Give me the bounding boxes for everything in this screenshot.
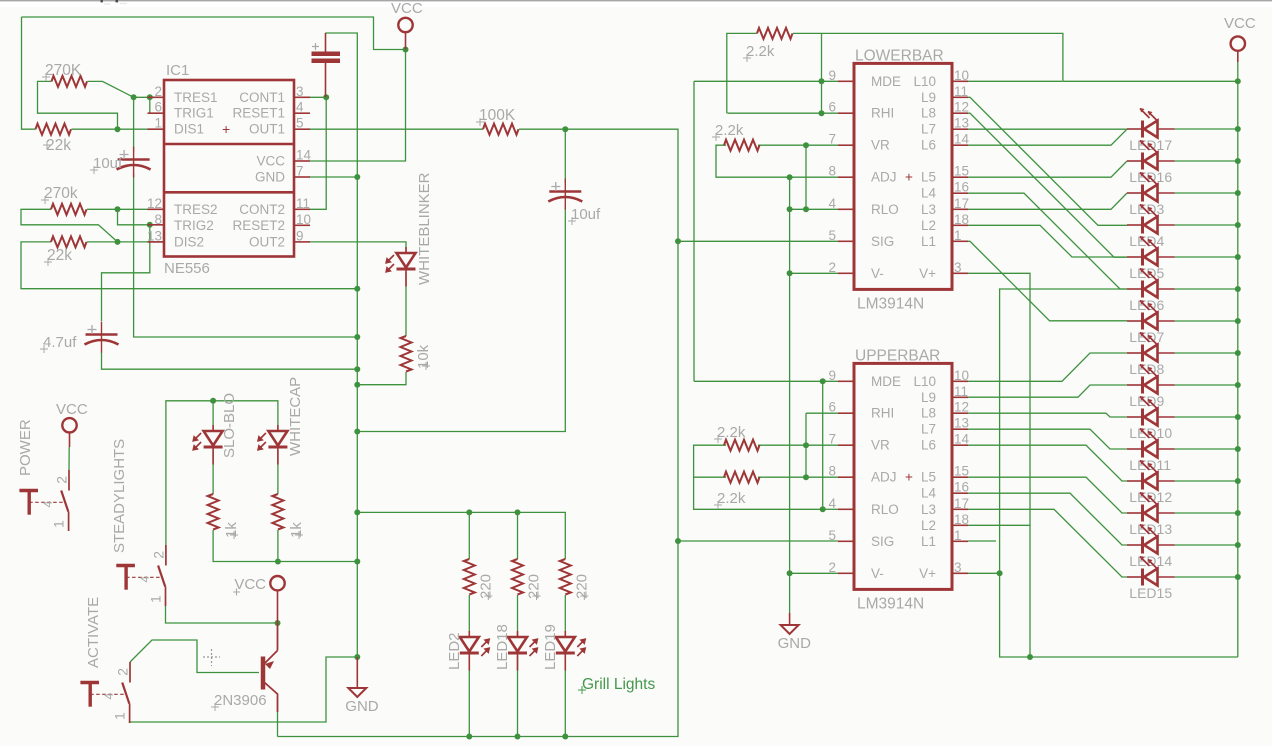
svg-text:L3: L3	[921, 502, 936, 517]
svg-text:4: 4	[138, 576, 152, 583]
junction TRES1 a	[131, 94, 137, 100]
wire 270K right diagonal to TRES1	[88, 81, 150, 97]
wire upper L6 pin14 to LED12	[968, 445, 1127, 481]
wire L10 pin10 row	[968, 80, 1062, 82]
wire SIG upperbar row	[678, 540, 838, 542]
wire 10uf C2 bottom to bus	[134, 174, 358, 337]
wire LED anode row y513	[1175, 512, 1238, 514]
wire LED anode row y545	[1175, 544, 1238, 546]
junction ADJ lowerbar	[787, 174, 793, 180]
wire L7 pin13 to LED17	[968, 128, 1127, 130]
resistor R11 1k	[208, 494, 219, 530]
junction 220 rail a	[466, 509, 472, 515]
junction bottom rail LED18	[515, 734, 521, 740]
wire L9 pin11 fan diagonal	[968, 97, 1127, 225]
supply VCC transistor stub	[277, 591, 279, 623]
wire bottom right rail	[999, 656, 1238, 658]
IC1 pin numbers	[147, 84, 312, 244]
wire 2.2k R5 left lead	[727, 33, 757, 113]
svg-text:ACTIVATE: ACTIVATE	[85, 597, 102, 668]
wire anode rail slo-blo whitecap	[166, 401, 278, 545]
wire L6 pin14 to LED17 kink	[968, 129, 1127, 145]
LED LED4	[1141, 217, 1144, 234]
resistor R1 270K	[52, 76, 88, 87]
wire top link to right rail	[822, 33, 1238, 81]
R15 label 220	[580, 592, 588, 600]
svg-text:LOWERBAR: LOWERBAR	[855, 47, 944, 64]
IC1 pin names	[174, 90, 285, 250]
svg-text:LED6: LED6	[1129, 297, 1164, 313]
svg-text:12: 12	[147, 196, 162, 211]
junction CONT1 cap C1	[323, 94, 329, 100]
wire power vcc to switch	[68, 447, 70, 470]
wire 22k R2 to DIS1	[72, 128, 165, 130]
svg-text:7: 7	[296, 164, 304, 179]
wire collector to rail	[277, 712, 279, 737]
junction bus GND node	[354, 654, 360, 660]
svg-text:UPPERBAR: UPPERBAR	[855, 347, 940, 364]
svg-text:4: 4	[102, 693, 116, 700]
wire LED anode row y161	[1175, 160, 1238, 162]
capacitor C3 10uf plates	[564, 179, 566, 210]
wire left border down to 22k R2 row	[22, 17, 36, 129]
svg-text:L3: L3	[921, 202, 936, 217]
svg-text:LED3: LED3	[1129, 201, 1164, 217]
svg-text:270k: 270k	[44, 185, 78, 202]
junction bus GND pin7	[354, 174, 360, 180]
junction rail y225	[1235, 222, 1241, 228]
wire LED anode row y417	[1175, 416, 1238, 418]
svg-text:8: 8	[828, 464, 836, 479]
switch S1 POWER	[68, 470, 70, 491]
wire LED anode row y481	[1175, 480, 1238, 482]
LED D1 WHITEBLINKER	[405, 247, 407, 287]
svg-text:DIS2: DIS2	[174, 234, 204, 249]
switch S3 ACTIVATE	[129, 662, 131, 683]
wire upper L8 pin12 to LED10	[968, 413, 1127, 417]
wire TRES1 to TRIG1 link	[150, 97, 164, 113]
junction V- lowerbar	[787, 270, 793, 276]
wire upper L1 pin1 stub	[968, 540, 996, 542]
svg-text:V+: V+	[919, 266, 936, 281]
junction SIG lowerbar	[675, 238, 681, 244]
junction rail y513	[1235, 510, 1241, 516]
junction 220 rail b	[515, 509, 521, 515]
junction RLO upperbar	[820, 506, 826, 512]
R6 label 2.2k	[712, 133, 720, 141]
svg-text:LED8: LED8	[1129, 361, 1164, 377]
wire LED anode row y449	[1175, 448, 1238, 450]
svg-text:+: +	[905, 470, 913, 485]
R12 label 1k	[295, 531, 303, 539]
svg-text:9: 9	[828, 68, 836, 83]
junction rail y577	[1235, 574, 1241, 580]
svg-text:5: 5	[296, 116, 304, 131]
svg-text:VCC: VCC	[234, 576, 266, 593]
wire 220 rail	[357, 512, 565, 559]
junction V+ rail	[1027, 654, 1033, 660]
capacitor C1 top plates	[312, 54, 341, 61]
LED LED12	[1141, 473, 1144, 490]
svg-text:2: 2	[53, 476, 69, 484]
LED LED8	[1141, 345, 1144, 362]
svg-text:GND: GND	[778, 635, 812, 652]
editor crosshair	[203, 649, 220, 666]
junction rail y193	[1235, 190, 1241, 196]
capacitor C4 4.7uf	[101, 322, 103, 353]
wire V- upperbar row	[790, 572, 838, 574]
svg-text:V-: V-	[871, 266, 884, 281]
LED D3 WHITECAP	[277, 425, 279, 465]
svg-text:Grill Lights: Grill Lights	[582, 676, 655, 693]
wire L2 pin18 to LED5	[968, 225, 1127, 257]
svg-text:2.2k: 2.2k	[715, 122, 744, 139]
LED LED10	[1141, 409, 1144, 426]
svg-text:11: 11	[296, 196, 310, 211]
svg-text:MDE: MDE	[871, 374, 901, 389]
junction bus 1k rail	[354, 559, 360, 565]
wire MDE vertical link	[693, 81, 695, 381]
LED LED7	[1141, 313, 1144, 330]
junction bus 10uf chain	[354, 334, 360, 340]
svg-text:LED5: LED5	[1129, 265, 1164, 281]
svg-text:2.2k: 2.2k	[717, 424, 746, 441]
resistor R12 1k	[272, 494, 283, 530]
junction rail y321	[1235, 318, 1241, 324]
wire LED2 top lead	[468, 595, 470, 637]
wire RLO lowerbar row	[790, 208, 838, 210]
resistor R5 2.2k	[757, 28, 793, 39]
resistor R10 10k	[401, 336, 412, 372]
switch S2 STEADYLIGHTS	[165, 545, 167, 566]
svg-text:L5: L5	[921, 170, 936, 185]
wire upper L3 pin17 to LED15	[968, 509, 1127, 577]
junction bus 4.7uf	[354, 366, 360, 372]
wire LED anode row y577	[1175, 576, 1238, 578]
Grill Lights text	[578, 686, 586, 694]
wire main vertical bus	[325, 33, 357, 657]
svg-text:4: 4	[828, 196, 836, 211]
svg-text:2: 2	[154, 84, 162, 99]
svg-text:4: 4	[828, 496, 836, 511]
svg-text:1: 1	[147, 595, 163, 603]
ground GND1	[348, 688, 366, 697]
LED D2 SLO-BLO	[212, 425, 214, 465]
svg-text:TRES1: TRES1	[174, 90, 218, 105]
svg-text:1: 1	[51, 520, 67, 528]
junction rail y545	[1235, 542, 1241, 548]
svg-text:10: 10	[954, 368, 969, 383]
wire LED19 bottom	[564, 656, 566, 737]
supply VCC top-middle	[398, 18, 412, 32]
svg-text:1: 1	[954, 528, 962, 543]
junction VCC top-middle	[403, 47, 409, 53]
junction TRIG2	[147, 222, 153, 228]
wire 10uf C3 top lead	[564, 129, 566, 183]
svg-text:7: 7	[828, 132, 836, 147]
R13 label 220	[484, 592, 492, 600]
wire V- GND vertical	[789, 177, 791, 613]
junction VR upperbar	[803, 442, 809, 448]
R8 label 2.2k	[714, 501, 722, 509]
svg-text:2.2k: 2.2k	[717, 490, 746, 507]
wire L4 pin16 fan diagonal to LED6	[968, 193, 1127, 289]
junction rail y353	[1235, 350, 1241, 356]
svg-text:1k: 1k	[223, 522, 240, 538]
wire TRES2 to TRIG2 link	[118, 209, 165, 225]
svg-text:L7: L7	[921, 422, 936, 437]
junction rail y257	[1235, 254, 1241, 260]
svg-text:16: 16	[954, 480, 969, 495]
resistor R9 100K	[483, 124, 519, 135]
wire 270K left loop	[38, 81, 118, 129]
IC U3 LM3914N UPPERBAR	[828, 363, 969, 589]
R5 label 2.2k	[743, 54, 751, 62]
wire 2.2k R6 left loop	[716, 145, 790, 177]
svg-text:L6: L6	[921, 138, 936, 153]
svg-text:15: 15	[954, 464, 969, 479]
junction RHI lowerbar	[819, 110, 825, 116]
wire 10uf C3 bottom to bus	[357, 207, 565, 432]
svg-text:2: 2	[828, 260, 836, 275]
wire V- lowerbar row	[790, 272, 838, 274]
wire LED anode row y289	[1175, 288, 1238, 290]
svg-text:VCC: VCC	[391, 0, 423, 17]
svg-text:RHI: RHI	[871, 406, 894, 421]
svg-text:9: 9	[296, 228, 304, 243]
svg-text:7: 7	[828, 432, 836, 447]
wire activate pin1 bottom	[130, 657, 357, 723]
wire LED anode row y225	[1175, 224, 1238, 226]
resistor R15 220	[560, 559, 571, 595]
svg-text:10: 10	[296, 212, 311, 227]
svg-text:L7: L7	[921, 122, 936, 137]
svg-text:OUT1: OUT1	[249, 122, 285, 137]
wire ADJ lowerbar row	[790, 176, 838, 178]
svg-text:IC1: IC1	[166, 62, 189, 79]
chrome tick marks	[101, 0, 103, 2]
svg-text:VCC: VCC	[56, 401, 88, 418]
svg-text:+: +	[222, 121, 230, 137]
ground GND2	[781, 625, 799, 634]
wire 220 branch 2	[517, 512, 519, 559]
LED LED16	[1141, 153, 1144, 170]
svg-text:ADJ: ADJ	[871, 470, 897, 485]
R11 label 1k	[230, 531, 238, 539]
junction DIS2	[115, 239, 121, 245]
svg-text:L9: L9	[921, 90, 936, 105]
resistor R8 2.2k	[724, 472, 760, 483]
wire L8 pin12 fan diagonal	[968, 113, 1127, 257]
LED LED5	[1141, 249, 1144, 266]
svg-text:LED19: LED19	[542, 624, 559, 670]
LED LED13	[1141, 505, 1144, 522]
svg-text:9: 9	[828, 368, 836, 383]
svg-text:4: 4	[41, 501, 55, 508]
wire ADJ upperbar row	[758, 476, 838, 478]
svg-text:10uf: 10uf	[571, 206, 601, 223]
svg-text:STEADYLIGHTS: STEADYLIGHTS	[111, 439, 128, 553]
wire RHI-ADJ link upperbar	[805, 413, 807, 477]
R14 label 220	[533, 592, 541, 600]
svg-text:LED2: LED2	[446, 632, 463, 670]
wire L3 pin17 to LED3	[968, 193, 1127, 209]
wire MDE lowerbar row	[694, 80, 838, 82]
wire VR upperbar row	[758, 444, 838, 446]
svg-text:1: 1	[954, 228, 962, 243]
svg-text:ADJ: ADJ	[871, 170, 897, 185]
wire GND1 stub	[356, 657, 358, 687]
svg-text:RESET1: RESET1	[232, 106, 285, 121]
LED LED6	[1141, 281, 1144, 298]
svg-text:16: 16	[954, 180, 969, 195]
junction TRES1 b	[147, 94, 153, 100]
svg-text:GND: GND	[255, 170, 285, 185]
wire LED2 bottom	[468, 656, 470, 737]
junction rail y385	[1235, 382, 1241, 388]
svg-text:CONT1: CONT1	[239, 90, 285, 105]
svg-text:L5: L5	[921, 470, 936, 485]
wire upper L10 pin10 to LED8	[968, 353, 1127, 381]
svg-text:2N3906: 2N3906	[214, 692, 267, 709]
resistor R6 2.2k	[724, 140, 760, 151]
junction VCC emitter node	[275, 620, 281, 626]
svg-text:13: 13	[147, 228, 162, 243]
wire MDE-RHI link	[821, 33, 823, 113]
wire L1 pin1 fan diagonal to LED7	[968, 241, 1127, 320]
svg-text:POWER: POWER	[17, 419, 34, 476]
capacitor C3 10uf leads	[564, 182, 566, 184]
svg-text:MDE: MDE	[871, 74, 901, 89]
svg-text:LED7: LED7	[1129, 329, 1164, 345]
svg-text:3: 3	[954, 260, 962, 275]
svg-text:V-: V-	[871, 566, 884, 581]
wire LED19 top lead	[564, 595, 566, 637]
svg-text:15: 15	[954, 164, 969, 179]
R3 label 270k	[41, 196, 49, 204]
svg-text:L8: L8	[921, 106, 936, 121]
svg-text:17: 17	[954, 496, 969, 511]
svg-text:V+: V+	[919, 566, 936, 581]
wire VR-RLO link	[805, 145, 807, 209]
wire MDE-RLO link upperbar	[822, 381, 824, 509]
wire LED anode row y385	[1175, 384, 1238, 386]
wire VR lowerbar row	[758, 144, 838, 146]
wire 2.2k R7 left loop	[694, 445, 823, 509]
junction VR lowerbar	[803, 142, 809, 148]
Q1 label 2N3906	[211, 703, 219, 711]
svg-text:L2: L2	[921, 518, 936, 533]
resistor R3 270k	[51, 204, 87, 215]
junction 1k rail	[275, 559, 281, 565]
junction ADJ upperbar	[803, 474, 809, 480]
R9 label 100K	[476, 118, 484, 126]
svg-text:18: 18	[954, 212, 969, 227]
LED LED15	[1141, 569, 1144, 586]
svg-text:SIG: SIG	[871, 534, 894, 549]
IC U2 LM3914N LOWERBAR	[828, 63, 969, 289]
LED LED18 grill	[517, 631, 519, 671]
wire CONT1 to cap C1	[309, 96, 326, 98]
R10 label 10k	[422, 362, 430, 370]
wire LED1 to 10k	[405, 272, 407, 336]
resistor R4 22k	[51, 236, 87, 247]
svg-text:VR: VR	[871, 438, 890, 453]
svg-text:270K: 270K	[45, 62, 82, 79]
LED LED3	[1141, 185, 1144, 202]
transistor Q1 2N3906	[261, 657, 266, 690]
junction rail y481	[1235, 478, 1241, 484]
wire CONT1 to CONT2	[309, 97, 326, 209]
wire L5 pin15 to LED16	[968, 161, 1127, 177]
wire steadylights pin1 down	[166, 606, 278, 623]
svg-text:18: 18	[954, 512, 969, 527]
wire 22k R4 to DIS2	[87, 241, 164, 243]
svg-text:LED9: LED9	[1129, 393, 1164, 409]
supply VCC power-switch	[62, 418, 76, 432]
wire 22k R4 left loop to bus	[21, 242, 357, 289]
svg-text:RHI: RHI	[871, 106, 894, 121]
wire upper L2 pin18 stub	[968, 524, 1030, 526]
svg-text:2: 2	[114, 668, 130, 676]
svg-text:L9: L9	[921, 390, 936, 405]
junction MDE right	[819, 78, 825, 84]
svg-text:L10: L10	[913, 374, 936, 389]
LED LED17	[1141, 121, 1144, 138]
junction rail y129	[1235, 126, 1241, 132]
svg-text:2: 2	[828, 560, 836, 575]
wire V+ lowerbar down	[968, 273, 1030, 657]
wire GND2 stub	[789, 613, 791, 625]
wire upper L7 pin13 to LED11	[968, 429, 1127, 449]
svg-text:4.7uf: 4.7uf	[43, 334, 77, 351]
svg-text:1: 1	[112, 712, 128, 720]
wire WHITECAP to 1k	[277, 450, 279, 494]
junction rail y417	[1235, 414, 1241, 420]
wire OUT1 row to 100K	[309, 128, 483, 130]
svg-text:6: 6	[828, 400, 836, 415]
junction rail y449	[1235, 446, 1241, 452]
LED LED2 grill	[468, 631, 470, 671]
svg-text:10k: 10k	[415, 344, 432, 369]
LED LED19 grill	[564, 631, 566, 671]
svg-text:6: 6	[828, 100, 836, 115]
wire 2.2k R8 left lead	[694, 476, 726, 478]
wire LED18 top lead	[517, 595, 519, 637]
wire V+ upperbar down	[968, 572, 1000, 574]
C2 label 10uf	[90, 166, 98, 174]
svg-text:+: +	[905, 170, 913, 185]
junction MDE upperbar	[820, 378, 826, 384]
R1 label 270K	[42, 73, 50, 81]
wire LED18 bottom	[517, 656, 519, 737]
svg-text:4: 4	[296, 100, 304, 115]
svg-text:220: 220	[573, 574, 590, 599]
supply VCC power stub	[69, 433, 71, 447]
svg-text:GND: GND	[345, 698, 379, 715]
junction bus 10uf-C3 row	[354, 429, 360, 435]
capacitor C2 10uf	[133, 147, 135, 178]
wire LED anode row y257	[1175, 256, 1238, 258]
svg-text:L6: L6	[921, 438, 936, 453]
LED LED9	[1141, 377, 1144, 394]
svg-text:1: 1	[154, 116, 162, 131]
svg-text:12: 12	[954, 400, 969, 415]
svg-text:220: 220	[477, 574, 494, 599]
svg-text:14: 14	[954, 132, 970, 147]
wire 270k R3 left loop diagonal	[21, 209, 118, 242]
supply VCC right rail	[1231, 36, 1245, 50]
